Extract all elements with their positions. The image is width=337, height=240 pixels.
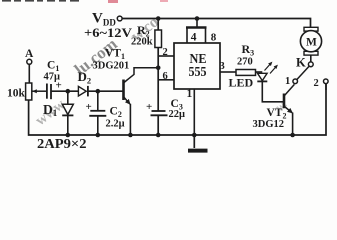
svg-text:1: 1 [285, 76, 290, 87]
svg-text:3DG201: 3DG201 [93, 61, 130, 72]
svg-text:2: 2 [314, 78, 319, 89]
junction dot (C2 / signal wire) [96, 89, 101, 94]
timing node vertical wire (R2 bottom to C3) [157, 48, 159, 112]
junction dot (VT1 emitter / bottom rail) [128, 133, 133, 138]
wire 555 pin 2 stub [158, 47, 174, 58]
junction dot (C3 / bottom rail) [156, 133, 161, 138]
svg-text:6: 6 [163, 71, 168, 82]
capacitor C2 [86, 91, 125, 135]
junction dot (pin1 / bottom rail) [192, 133, 197, 138]
junction dot (R2 / top rail) [156, 16, 161, 21]
resistor R3 [236, 42, 262, 75]
contact 1 terminal [285, 76, 298, 87]
transistor VT2 [253, 84, 295, 135]
transistor VT1 [93, 48, 159, 136]
wire C1 to D1/D2 junction [51, 90, 78, 92]
diode D2 [78, 69, 123, 96]
terminal VDD [84, 11, 133, 41]
terminal A [25, 48, 34, 83]
cut-off caption fragments at top edge (decorative) [2, 0, 168, 3]
svg-text:1: 1 [187, 88, 193, 100]
junction dot (555 pins 4,8 / top rail) [195, 16, 200, 21]
switch K [296, 55, 313, 79]
svg-text:22μ: 22μ [169, 109, 186, 120]
svg-text:2.2μ: 2.2μ [106, 119, 125, 130]
junction dot (C2 / bottom rail) [96, 133, 101, 138]
svg-text:8: 8 [211, 31, 217, 43]
contact 2 terminal [314, 78, 329, 90]
capacitor C1 [44, 60, 62, 100]
svg-text:2AP9×2: 2AP9×2 [37, 136, 87, 151]
diode D1 [43, 91, 73, 135]
svg-text:+6~12V: +6~12V [84, 25, 133, 40]
svg-text:220k: 220k [131, 37, 153, 48]
bottom rail wire [29, 84, 326, 135]
top power rail wire [122, 19, 311, 28]
svg-text:10k: 10k [7, 88, 26, 100]
svg-text:+: + [56, 80, 62, 92]
junction dot (D1 / signal wire) [66, 89, 71, 94]
555 pin 1 lead [187, 88, 195, 135]
junction dot (VT2 emitter / bottom rail) [290, 133, 295, 138]
svg-text:3DG12: 3DG12 [253, 119, 285, 130]
svg-text:+: + [86, 101, 92, 113]
LED D3 [229, 62, 278, 90]
svg-text:4: 4 [191, 31, 197, 43]
IC U1 NE555 [174, 43, 220, 89]
junction dot (D1 / bottom rail) [66, 133, 71, 138]
svg-text:+: + [146, 101, 152, 113]
svg-text:555: 555 [189, 65, 207, 80]
motor M [300, 27, 321, 55]
potentiometer RP 10k [7, 83, 47, 100]
wire LED cathode to VT2 base [262, 81, 283, 101]
capacitor C3 [146, 98, 185, 135]
svg-text:M: M [306, 37, 317, 49]
555 pin 3 stub [220, 61, 237, 72]
svg-text:270: 270 [237, 57, 253, 68]
svg-text:3: 3 [220, 61, 225, 72]
wire 555 pin 6 stub [158, 71, 174, 82]
watermark (decorative) [33, 13, 327, 129]
svg-text:A: A [25, 48, 34, 60]
svg-text:2: 2 [163, 47, 168, 58]
svg-text:LED: LED [229, 76, 254, 90]
resistor R2 [131, 19, 162, 48]
555 pins 4 and 8 leads to VDD [186, 19, 217, 44]
svg-text:K: K [296, 55, 306, 69]
ground [188, 135, 208, 151]
junction dot (VT1 collector / timing node) [156, 66, 161, 71]
